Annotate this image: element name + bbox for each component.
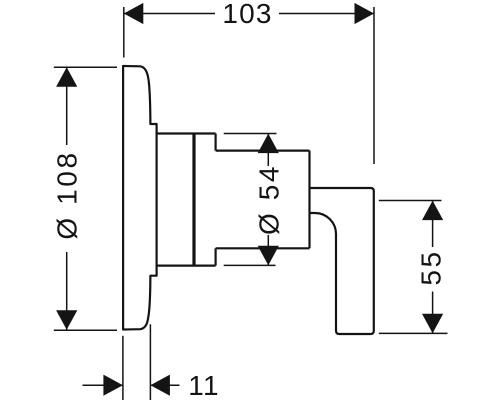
- svg-text:55: 55: [416, 249, 447, 285]
- svg-text:Ø 108: Ø 108: [52, 150, 83, 239]
- svg-text:103: 103: [222, 0, 272, 29]
- svg-text:11: 11: [188, 370, 219, 400]
- svg-text:Ø 54: Ø 54: [253, 164, 284, 235]
